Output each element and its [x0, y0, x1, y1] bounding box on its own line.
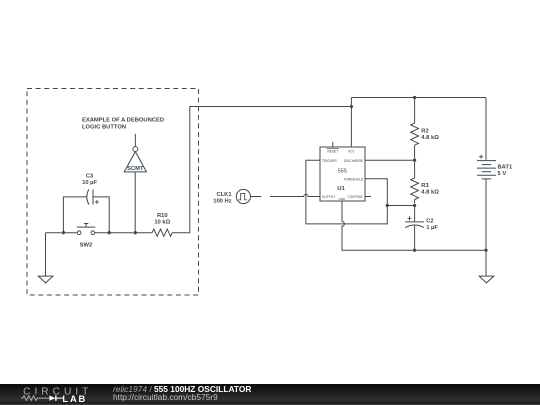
svg-text:C3: C3 [86, 174, 94, 180]
label C2 1uF [426, 219, 438, 231]
IC U1 555 box [320, 147, 365, 201]
wire threshold loop [306, 160, 387, 224]
node dot R2 top [413, 96, 416, 99]
pin labels U1 [322, 150, 364, 202]
node dot threshold branch [386, 204, 389, 207]
battery BAT1 [477, 98, 496, 251]
footer bar [0, 384, 540, 405]
svg-text:LOGIC BUTTON: LOGIC BUTTON [82, 125, 126, 131]
svg-text:CLK1: CLK1 [216, 192, 232, 198]
wire discharge [365, 159, 415, 161]
node dot vcc join [350, 105, 353, 108]
wire R10 to VCC node [172, 107, 349, 233]
wire top rail [351, 97, 486, 99]
svg-text:10 kΩ: 10 kΩ [154, 219, 170, 225]
label BAT1 5V [498, 165, 513, 178]
svg-text:THRESHOLD: THRESHOLD [343, 178, 364, 182]
node dot C3 right [108, 231, 111, 234]
capacitor C2 [405, 206, 424, 251]
svg-text:LAB: LAB [62, 394, 87, 404]
svg-text:RESET: RESET [327, 150, 338, 154]
clock source CLK1 [236, 189, 261, 203]
svg-text:100 Hz: 100 Hz [213, 199, 231, 205]
resistor R3 [411, 160, 419, 203]
svg-text:U1: U1 [337, 186, 345, 192]
svg-text:C2: C2 [426, 219, 433, 225]
resistor R2 [411, 98, 419, 159]
footer title [113, 385, 251, 393]
pin stub reset [332, 142, 334, 147]
capacitor C3 [87, 189, 99, 204]
node dot R3 bottom [413, 204, 416, 207]
node dot C3 left [62, 231, 65, 234]
node dot C2 bottom [413, 249, 416, 252]
resistor R10 [152, 229, 172, 236]
svg-text:R2: R2 [421, 129, 428, 135]
svg-text:R3: R3 [421, 183, 429, 189]
pin stub control [365, 196, 371, 198]
caption EXAMPLE OF A DEBOUNCED LOGIC BUTTON [82, 118, 164, 131]
svg-text:4.8 kΩ: 4.8 kΩ [421, 190, 439, 196]
switch SW2 [77, 224, 95, 235]
ground GND1 (left) [38, 233, 53, 283]
node dot bottom rail battery [484, 249, 487, 252]
svg-text:DISCHARGE: DISCHARGE [344, 159, 364, 163]
svg-text:EXAMPLE OF A DEBOUNCED: EXAMPLE OF A DEBOUNCED [82, 118, 164, 124]
svg-text:SCMT: SCMT [127, 166, 144, 172]
node dot schmitt base [134, 231, 137, 234]
wire C3 right branch [93, 197, 109, 233]
svg-text:SW2: SW2 [80, 243, 93, 249]
label R3 4.8k [421, 183, 439, 195]
svg-text:OUTPUT: OUTPUT [322, 195, 335, 199]
wire row to R10 [135, 232, 152, 234]
node dot R2/R3 [413, 159, 416, 162]
circuitlab logo [21, 384, 101, 405]
svg-text:1 µF: 1 µF [426, 225, 438, 231]
svg-text:GND: GND [339, 197, 346, 201]
dashed example box [27, 89, 199, 296]
svg-text:4.8 kΩ: 4.8 kΩ [421, 135, 439, 141]
svg-text:VCC: VCC [348, 150, 355, 154]
wire schmitt to row [134, 172, 136, 233]
svg-text:555: 555 [338, 168, 347, 174]
reset overline [327, 148, 339, 150]
ground GND2 (right) [479, 276, 494, 283]
svg-text:10 µF: 10 µF [82, 180, 97, 186]
wire C3 left branch [63, 197, 86, 233]
wire row between dots [63, 232, 133, 234]
svg-text:TRIGGER: TRIGGER [322, 159, 337, 163]
svg-text:5 V: 5 V [498, 171, 507, 177]
svg-text:R10: R10 [157, 213, 168, 219]
wire battery to ground [485, 250, 487, 276]
footer url [113, 393, 218, 401]
schmitt trigger SCMT [124, 134, 146, 172]
label R10 10k [154, 213, 170, 225]
label CLK1 100Hz [213, 192, 232, 204]
svg-text:CONTROL: CONTROL [347, 195, 363, 199]
wire VCC vertical [350, 98, 352, 148]
wire ground-left to SW2 row [46, 232, 62, 234]
label C3 10uF [82, 174, 97, 186]
wire threshold branch [387, 205, 414, 207]
wire gnd pin with hop [342, 201, 486, 250]
svg-text:BAT1: BAT1 [498, 165, 513, 171]
label R2 4.8k [421, 129, 439, 141]
wire output with hop [270, 194, 320, 196]
